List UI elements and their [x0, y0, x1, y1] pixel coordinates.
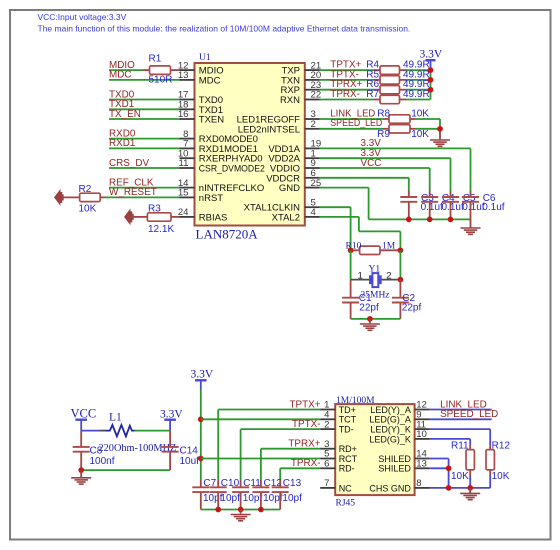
- wire ground rail caps: [369, 218, 471, 220]
- svg-text:SPEED_LED: SPEED_LED: [330, 118, 382, 129]
- svg-text:22pf: 22pf: [402, 303, 422, 314]
- wire TXD1: [109, 108, 180, 110]
- wire SPEED_LED rj: [430, 418, 492, 420]
- svg-text:SPEED_LED: SPEED_LED: [440, 409, 498, 420]
- net label LINK_LED rj: [440, 399, 487, 410]
- pin 20 U1 right: [281, 70, 321, 86]
- svg-text:R11: R11: [451, 441, 469, 452]
- wire MDC: [109, 79, 180, 81]
- wire TXD0: [109, 99, 180, 101]
- wire TCT: [201, 418, 320, 420]
- svg-text:RJ45: RJ45: [336, 499, 356, 509]
- svg-text:10: 10: [416, 429, 427, 440]
- pin 23 U1 right: [280, 80, 321, 96]
- wire LINK_LED: [320, 118, 383, 120]
- net label RXD1: [109, 138, 136, 149]
- wire R5 to rail: [406, 79, 431, 81]
- ground crystal: [360, 319, 380, 330]
- net label TPRX- rj: [291, 458, 321, 469]
- junction dot C8 gnd: [78, 467, 84, 473]
- svg-text:25: 25: [311, 178, 322, 189]
- capacitor C7 10pf: [192, 478, 222, 510]
- svg-text:RD-: RD-: [339, 464, 355, 474]
- pin 10 U1 left: [178, 148, 263, 164]
- wire MDIO: [109, 69, 143, 71]
- svg-text:LED(G)_A: LED(G)_A: [369, 415, 411, 425]
- svg-text:TPRX-: TPRX-: [330, 89, 360, 100]
- junction dot pin13: [446, 465, 452, 471]
- capacitor C2 22pf: [392, 280, 422, 319]
- svg-text:3.3V: 3.3V: [191, 369, 214, 381]
- wire L1 to 3.3V: [135, 430, 171, 432]
- wire pin row to cap x=470.5: [320, 148, 471, 190]
- pin 14 U1 left: [178, 178, 264, 194]
- svg-text:LED(G)_K: LED(G)_K: [369, 434, 411, 444]
- net label TPRX+ rj: [288, 439, 320, 450]
- pin 8 U1 left: [180, 129, 258, 145]
- wire TPRX-: [320, 99, 374, 101]
- wire RCT: [201, 458, 320, 460]
- junction dots pin8: [446, 485, 473, 491]
- svg-text:R3: R3: [148, 204, 161, 215]
- pin 6 U1 right: [266, 168, 320, 184]
- net label VCC row: [361, 158, 382, 169]
- pin 1 U1 right: [268, 148, 319, 164]
- svg-text:VCC:Input voltage:3.3V: VCC:Input voltage:3.3V: [38, 12, 127, 22]
- net label TPRX-: [330, 89, 360, 100]
- pin 3 RJ45 left: [320, 439, 357, 454]
- wire TPRX+: [320, 89, 374, 91]
- wire TPTX+: [320, 69, 374, 71]
- net label TX_EN: [109, 109, 141, 120]
- resistor R6 49.9R: [366, 79, 429, 94]
- pin 2 RJ45 left: [320, 419, 354, 434]
- ground shield: [460, 488, 480, 500]
- wire crystal ground rail: [351, 318, 401, 320]
- resistor R12 10K: [486, 441, 510, 482]
- svg-text:10K: 10K: [411, 129, 429, 140]
- svg-text:TX_EN: TX_EN: [109, 109, 141, 120]
- wire pin10 to R11: [430, 439, 471, 450]
- net label TPTX+: [330, 60, 361, 71]
- pin 24 U1 left: [178, 207, 227, 223]
- svg-text:1: 1: [358, 270, 363, 281]
- net label TPTX-: [330, 69, 359, 80]
- pin 2 U1 right: [238, 119, 320, 135]
- net label MDC: [109, 70, 132, 81]
- connector RJ45: [335, 396, 414, 508]
- capacitor C5 0.1uf: [442, 191, 476, 220]
- svg-text:LAN8720A: LAN8720A: [196, 227, 259, 242]
- power arrow R3 ground: [124, 208, 147, 225]
- net label TXD1: [109, 99, 135, 110]
- pin 25 U1 right: [279, 178, 321, 194]
- wire R4 to rail: [406, 69, 431, 71]
- crystal Y1 25MHz: [351, 264, 401, 300]
- svg-text:TPRX+: TPRX+: [288, 439, 320, 450]
- pin 9 RJ45 right: [369, 410, 429, 425]
- power port 3.3V top: [420, 49, 443, 71]
- svg-text:100nf: 100nf: [90, 456, 115, 467]
- svg-text:10pf: 10pf: [282, 493, 302, 504]
- net label SPEED_LED rj: [440, 409, 498, 420]
- resistor R5 49.9R: [366, 69, 429, 84]
- pin 14 RJ45 right: [378, 449, 429, 464]
- net label LINK_LED: [330, 108, 375, 119]
- svg-text:VCC: VCC: [71, 407, 97, 421]
- labels 0.1uf values: [421, 202, 505, 213]
- svg-text:10K: 10K: [411, 108, 429, 119]
- svg-text:R1: R1: [149, 54, 162, 65]
- IC U1 LAN8720A: [195, 53, 305, 241]
- svg-text:6: 6: [324, 459, 329, 470]
- resistor R1 510R: [143, 54, 180, 86]
- pin 9 U1 right: [270, 158, 320, 174]
- svg-text:The main function of this modu: The main function of this module: the re…: [38, 24, 411, 34]
- wire filter bottom: [81, 469, 170, 471]
- svg-text:L1: L1: [109, 411, 122, 423]
- pin 11 RJ45 right: [370, 419, 429, 434]
- svg-text:10pf: 10pf: [243, 493, 263, 504]
- wire W_RESET: [105, 196, 180, 198]
- svg-text:VCC: VCC: [361, 158, 382, 169]
- wire cap bank rail: [201, 509, 280, 511]
- wire 3.3V center rail: [200, 390, 202, 481]
- text note: [38, 12, 411, 34]
- wire VCC to L1: [81, 430, 105, 432]
- inductor L1 220Ohm-100MHZ: [99, 411, 177, 454]
- wire RD+ TPRX+: [261, 449, 320, 480]
- net label W_RESET: [109, 187, 157, 198]
- pin 18 U1 left: [178, 100, 223, 116]
- pin 17 U1 left: [178, 90, 223, 106]
- capacitor C3 0.1uf: [400, 191, 434, 220]
- svg-text:MDC: MDC: [109, 70, 132, 81]
- svg-text:R12: R12: [492, 441, 511, 452]
- net label REF_CLK: [109, 177, 154, 188]
- svg-text:CSR_DVMODE2: CSR_DVMODE2: [199, 164, 265, 175]
- net label MDIO: [109, 60, 135, 71]
- svg-text:CRS_DV: CRS_DV: [109, 158, 149, 169]
- wire XTAL2 pin4: [320, 217, 401, 250]
- svg-text:GND: GND: [279, 183, 300, 194]
- ground LED resistors: [430, 140, 450, 146]
- capacitor C11 10pf: [232, 478, 262, 510]
- pin 3 U1 right: [237, 109, 320, 125]
- svg-text:TXEN: TXEN: [199, 115, 224, 126]
- svg-text:8: 8: [416, 478, 421, 489]
- net label RXD0: [109, 128, 136, 139]
- svg-text:RBIAS: RBIAS: [199, 212, 228, 223]
- wire SPEED_LED: [320, 128, 383, 130]
- resistor R9 10K: [377, 125, 429, 141]
- net label TPRX+: [330, 79, 362, 90]
- pin 13 U1 left: [178, 70, 221, 86]
- capacitor C1 22pf: [342, 280, 379, 319]
- pin 12 U1 left: [178, 60, 224, 76]
- junction dots bank rail: [215, 507, 263, 513]
- svg-text:LED2nINTSEL: LED2nINTSEL: [238, 124, 300, 135]
- junction dot crystal gnd: [367, 316, 373, 322]
- wire CRS_DV: [109, 167, 180, 169]
- svg-text:49.9R: 49.9R: [403, 89, 430, 100]
- svg-text:TD+: TD+: [339, 405, 356, 415]
- svg-text:1M: 1M: [382, 241, 396, 251]
- wire LINK_LED rj: [430, 409, 492, 411]
- capacitor C4 0.1uf: [421, 191, 455, 220]
- svg-text:10K: 10K: [451, 471, 469, 482]
- wire TPTX-: [320, 79, 374, 81]
- wire TD- TPTX-: [241, 429, 321, 480]
- wire pin11 to R12: [430, 429, 491, 450]
- svg-text:RXN: RXN: [280, 95, 300, 106]
- net label CRS_DV: [109, 158, 149, 169]
- svg-text:SHILED: SHILED: [378, 454, 411, 464]
- junction dot R8 R9: [437, 126, 443, 132]
- capacitor C12 10pf: [252, 478, 282, 510]
- wire R8 R9 join: [415, 119, 440, 139]
- svg-text:2: 2: [324, 419, 329, 430]
- pin 1 RJ45 left: [320, 400, 356, 415]
- capacitor C8 100nf: [73, 431, 115, 471]
- svg-text:2: 2: [311, 119, 316, 130]
- capacitor C6 0.1uf: [462, 191, 496, 220]
- svg-text:C13: C13: [283, 478, 302, 489]
- net label TPTX+ rj: [289, 399, 320, 410]
- svg-text:11: 11: [179, 158, 189, 169]
- net label TXD0: [109, 89, 135, 100]
- svg-text:CHS GND: CHS GND: [369, 483, 411, 493]
- wire pin row to cap x=450.5: [320, 158, 451, 190]
- svg-text:XTAL2: XTAL2: [272, 212, 300, 223]
- pin 6 RJ45 left: [320, 459, 355, 474]
- wire R7 to rail: [406, 99, 431, 101]
- svg-text:10pf: 10pf: [220, 493, 240, 504]
- svg-text:LED(Y)_A: LED(Y)_A: [370, 405, 411, 415]
- svg-text:2: 2: [386, 270, 391, 281]
- svg-text:W_RESET: W_RESET: [109, 187, 157, 198]
- pin 10 RJ45 right: [369, 429, 429, 444]
- pin 5 RJ45 left: [320, 449, 357, 464]
- net label SPEED_LED: [330, 118, 382, 129]
- resistor R10 1M: [346, 241, 401, 254]
- svg-text:10uf: 10uf: [180, 456, 200, 467]
- resistor R8 10K: [377, 108, 429, 123]
- svg-text:24: 24: [178, 207, 189, 218]
- junction dots cap rail: [406, 217, 453, 223]
- pin 7 RJ45 left: [320, 478, 352, 493]
- pin 21 U1 right: [282, 60, 322, 76]
- resistor R7 49.9R: [366, 89, 429, 104]
- pin 4 RJ45 left: [320, 410, 356, 425]
- svg-text:10K: 10K: [79, 204, 97, 215]
- svg-text:0.1uf: 0.1uf: [482, 202, 504, 213]
- pin 8 RJ45 right: [369, 478, 429, 493]
- svg-text:RCT: RCT: [339, 454, 358, 464]
- net label 3.3V row: [361, 138, 382, 149]
- wire TD+ TPTX+: [218, 410, 320, 481]
- svg-text:R7: R7: [366, 89, 379, 100]
- svg-text:SHILED: SHILED: [378, 464, 411, 474]
- wire crystal left vertical: [350, 250, 352, 279]
- svg-text:TPTX+: TPTX+: [289, 399, 320, 410]
- junction dots rail: [428, 67, 434, 92]
- power port 3.3V left: [160, 409, 183, 431]
- svg-text:22pf: 22pf: [359, 303, 379, 314]
- wire 3.3V rail vertical: [430, 70, 432, 99]
- wire pin14 pin13: [430, 459, 449, 488]
- pin 19 U1 right: [268, 139, 321, 155]
- resistor R4 49.9R: [366, 60, 429, 75]
- pin 15 U1 left: [178, 188, 223, 204]
- svg-text:22: 22: [311, 90, 322, 101]
- svg-text:13: 13: [416, 459, 427, 470]
- ground filter: [71, 470, 91, 484]
- pin 12 RJ45 right: [370, 400, 429, 415]
- wire RD- TPRX-: [280, 468, 320, 480]
- junction dots R10: [348, 247, 404, 253]
- svg-text:10K: 10K: [492, 471, 510, 482]
- power port VCC: [71, 407, 97, 431]
- junction dots 3.3V rail: [198, 416, 204, 461]
- svg-text:TPRX-: TPRX-: [291, 458, 321, 469]
- pin 13 RJ45 right: [378, 459, 429, 474]
- svg-text:U1: U1: [199, 53, 211, 63]
- svg-text:7: 7: [324, 478, 329, 489]
- svg-text:RD+: RD+: [339, 444, 357, 454]
- wire TX_EN: [109, 118, 180, 120]
- svg-text:510R: 510R: [149, 75, 173, 86]
- wire crystal right vertical: [399, 250, 401, 279]
- resistor R11 10K: [451, 441, 474, 482]
- svg-text:12.1K: 12.1K: [148, 224, 174, 235]
- wire RXD1: [109, 147, 180, 149]
- pin 7 U1 left: [180, 139, 258, 155]
- wire REF_CLK: [109, 187, 180, 189]
- wire R6 to rail: [406, 89, 431, 91]
- svg-text:TCT: TCT: [339, 415, 357, 425]
- wire pin row to cap x=429.7: [320, 168, 430, 191]
- capacitor C10 10pf: [210, 478, 240, 510]
- wire XTAL1 pin5: [320, 207, 351, 250]
- ground cap bank: [231, 510, 251, 521]
- resistor R2 10K: [79, 184, 105, 215]
- wire RXD0: [109, 138, 180, 140]
- svg-text:NC: NC: [339, 483, 352, 493]
- svg-text:MDC: MDC: [199, 75, 221, 86]
- svg-text:4: 4: [311, 207, 317, 218]
- pin 22 U1 right: [280, 90, 321, 106]
- svg-text:3.3V: 3.3V: [420, 49, 443, 61]
- net label TPTX- rj: [292, 419, 321, 430]
- power arrow R2 ground: [54, 189, 80, 206]
- net label 3.3V row: [361, 148, 382, 159]
- wire pin row to cap x=408.8: [320, 178, 409, 191]
- ground cap rail: [461, 219, 481, 234]
- svg-text:RXD1: RXD1: [109, 138, 136, 149]
- svg-text:0.1uf: 0.1uf: [442, 202, 464, 213]
- svg-text:Y1: Y1: [369, 264, 381, 274]
- pin 16 U1 left: [178, 109, 224, 125]
- pin 5 U1 right: [244, 197, 320, 213]
- svg-text:TD-: TD-: [339, 425, 354, 435]
- svg-text:TPTX-: TPTX-: [292, 419, 321, 430]
- pin 4 U1 right: [272, 207, 320, 223]
- pin 11 U1 left: [179, 158, 265, 174]
- wire GND pin25: [320, 188, 369, 220]
- wire pin8 shield: [430, 470, 491, 488]
- svg-text:LED(Y)_K: LED(Y)_K: [370, 425, 411, 435]
- svg-text:nRST: nRST: [199, 193, 223, 204]
- svg-text:R2: R2: [79, 184, 92, 195]
- resistor R3 12.1K: [147, 204, 179, 236]
- junction dot crystal right: [398, 277, 404, 283]
- power port 3.3V center: [191, 369, 214, 390]
- svg-text:0.1uf: 0.1uf: [421, 202, 443, 213]
- capacitor C13 10pf: [272, 478, 302, 510]
- capacitor C14 10uf: [162, 431, 200, 471]
